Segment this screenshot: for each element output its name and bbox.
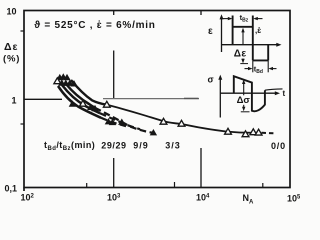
svg-text:9/9: 9/9 — [133, 141, 149, 151]
svg-text:ε: ε — [208, 26, 213, 37]
svg-text:ϑ = 525°C , ɛ̇ = 6%/min: ϑ = 525°C , ɛ̇ = 6%/min — [34, 20, 155, 31]
svg-text:,ɛ̇: ,ɛ̇ — [255, 26, 261, 35]
svg-text:Δε: Δε — [234, 49, 247, 60]
svg-text:1: 1 — [11, 96, 16, 106]
svg-text:3/3: 3/3 — [165, 141, 181, 151]
svg-text:Δσ: Δσ — [237, 95, 251, 106]
svg-text:Δε: Δε — [4, 41, 19, 53]
svg-text:t: t — [283, 89, 286, 98]
svg-text:10: 10 — [6, 7, 16, 17]
svg-text:(%): (%) — [3, 54, 20, 65]
svg-text:29/29: 29/29 — [101, 141, 126, 151]
svg-text:0/0: 0/0 — [271, 141, 286, 151]
svg-text:0,1: 0,1 — [5, 184, 18, 194]
svg-text:σ: σ — [208, 74, 214, 84]
